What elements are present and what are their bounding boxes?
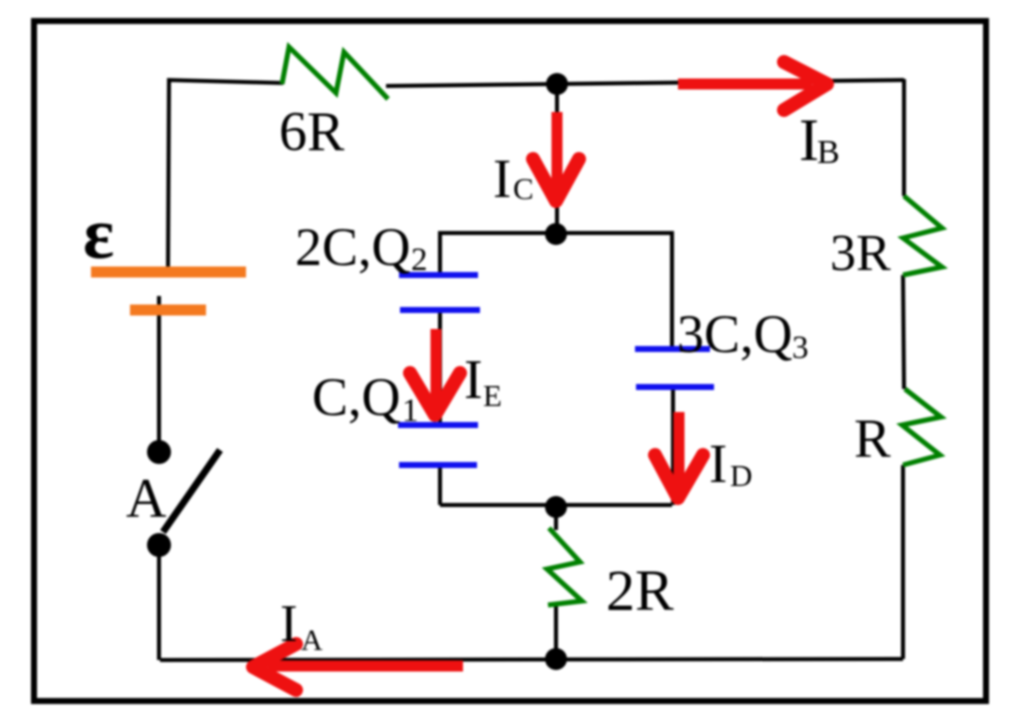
svg-text:I: I	[493, 148, 511, 209]
wire capacitor network bottom	[440, 503, 672, 507]
wire switch bottom to bottom wire	[157, 545, 161, 660]
svg-text:3: 3	[792, 330, 809, 366]
current arrow IB	[678, 62, 827, 110]
resistor 6R	[282, 47, 388, 99]
switch dot bottom	[147, 533, 171, 557]
wire capacitor network top	[440, 231, 672, 235]
wire 2R bottom link	[554, 605, 558, 659]
svg-text:6R: 6R	[279, 101, 345, 163]
svg-text:A: A	[126, 468, 167, 530]
svg-text:ε: ε	[83, 193, 114, 274]
capacitor C1 plate top	[398, 422, 478, 428]
wire bottom	[160, 659, 903, 660]
resistor 2R	[547, 528, 582, 605]
svg-text:3R: 3R	[830, 225, 891, 282]
svg-text:2: 2	[411, 242, 428, 278]
svg-text:D: D	[730, 458, 752, 493]
capacitor C2 plate bottom	[400, 307, 480, 313]
wire left branch upper	[438, 231, 442, 273]
wire right branch upper	[670, 231, 674, 348]
svg-text:3C,Q: 3C,Q	[677, 304, 793, 364]
wire battery bottom to switch top	[157, 296, 161, 452]
svg-text:R: R	[854, 408, 891, 469]
wire top junction down to capacitor network node	[555, 84, 559, 234]
svg-text:2R: 2R	[606, 558, 674, 623]
node capacitor top	[545, 223, 567, 245]
resistor 3R	[903, 196, 942, 275]
wire battery top to circuit top-left corner	[168, 80, 283, 271]
svg-text:1: 1	[402, 393, 419, 429]
current arrow ID	[655, 412, 703, 498]
capacitor C1 plate bottom	[399, 462, 477, 468]
switch dot top	[147, 440, 171, 464]
battery plate short	[130, 305, 206, 316]
current arrow IC	[533, 112, 579, 201]
svg-text:I: I	[709, 433, 727, 494]
svg-text:I: I	[799, 107, 819, 173]
svg-text:C: C	[513, 171, 534, 206]
current arrow IA	[253, 644, 463, 690]
capacitor C3 plate bottom	[636, 384, 714, 390]
wire right side between 3R and R	[903, 275, 904, 389]
current arrow IE	[410, 329, 460, 415]
wire right side upper	[902, 79, 906, 196]
wire top junction to top-right corner	[557, 80, 904, 84]
wire right branch lower	[671, 388, 675, 505]
switch blade	[163, 450, 220, 532]
svg-text:C,Q: C,Q	[312, 367, 401, 427]
svg-text:A: A	[301, 624, 323, 657]
node capacitor bottom	[545, 496, 567, 518]
wire right side lower to bottom corner	[901, 465, 905, 659]
wire 6R to top junction	[386, 84, 557, 86]
node bottom wire	[545, 648, 567, 670]
capacitor C2 plate top	[399, 272, 478, 278]
svg-text:2C,Q: 2C,Q	[295, 217, 411, 277]
capacitor C3 plate top	[635, 346, 710, 352]
node top junction	[546, 73, 568, 95]
battery plate long	[91, 267, 246, 278]
svg-text:I: I	[280, 595, 298, 653]
resistor R	[902, 389, 941, 465]
svg-text:I: I	[464, 349, 483, 411]
wire 2R top link	[554, 507, 558, 530]
wire left branch middle	[438, 312, 442, 426]
wire left branch lower	[438, 465, 442, 505]
svg-text:E: E	[483, 378, 502, 413]
svg-text:B: B	[817, 134, 840, 171]
